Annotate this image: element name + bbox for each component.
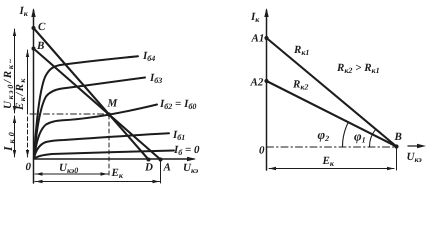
svg-text:B: B xyxy=(36,40,44,52)
svg-text:0: 0 xyxy=(259,145,265,157)
svg-text:Eк/Rк: Eк/Rк xyxy=(14,77,27,111)
svg-text:Iк: Iк xyxy=(250,11,260,24)
svg-text:A: A xyxy=(163,162,171,174)
svg-text:D: D xyxy=(144,162,153,174)
svg-text:Rк2: Rк2 xyxy=(292,79,308,92)
svg-text:C: C xyxy=(38,21,46,33)
svg-text:Iб2 = Iб0: Iб2 = Iб0 xyxy=(159,98,196,111)
svg-text:Eк: Eк xyxy=(322,155,335,168)
svg-text:Rк2 > Rк1: Rк2 > Rк1 xyxy=(336,62,380,75)
svg-text:Uкэ: Uкэ xyxy=(407,151,423,164)
svg-text:Iк: Iк xyxy=(19,5,29,18)
svg-text:Eк: Eк xyxy=(111,167,124,180)
svg-text:Iб4: Iб4 xyxy=(142,50,155,63)
svg-text:Iб1: Iб1 xyxy=(172,129,185,142)
svg-text:A1: A1 xyxy=(251,33,265,45)
svg-text:Iк0: Iк0 xyxy=(1,129,16,152)
svg-text:B: B xyxy=(394,131,402,143)
svg-text:Iб3: Iб3 xyxy=(149,72,162,85)
svg-text:A2: A2 xyxy=(250,77,264,89)
svg-text:M: M xyxy=(107,98,119,110)
svg-text:Iб = 0: Iб = 0 xyxy=(173,144,200,157)
svg-text:Uкэ0: Uкэ0 xyxy=(59,162,78,175)
svg-text:φ2: φ2 xyxy=(318,127,330,143)
svg-text:Rк1: Rк1 xyxy=(293,44,309,57)
svg-text:Uкэ: Uкэ xyxy=(183,162,199,175)
svg-text:0: 0 xyxy=(26,161,32,173)
